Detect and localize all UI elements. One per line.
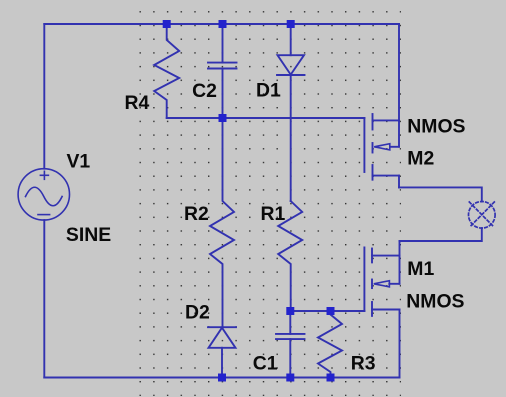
node junction C2 top [219,20,227,28]
wire M2 drain vertical [398,24,400,147]
svg-text:R1: R1 [261,203,286,225]
voltage source V1 [18,169,69,220]
node junction D2 bottom [218,374,226,382]
diode D2 [208,327,236,377]
wire M2 source to lamp [399,187,482,201]
resistor R2 [210,118,234,327]
svg-text:D1: D1 [256,79,281,101]
node junction R3 bottom [327,374,335,382]
wire mid rail to M2 gate [167,117,365,119]
wire M1 gate rail [290,310,364,312]
svg-text:V1: V1 [67,150,91,172]
lamp load [469,202,496,229]
node junction D1 top [287,20,295,28]
svg-text:M1: M1 [407,258,434,280]
capacitor C1 [276,311,305,378]
svg-text:SINE: SINE [66,224,111,246]
diode D1 [277,24,305,201]
capacitor C2 [208,24,237,118]
svg-text:R4: R4 [125,92,150,114]
node junction C2 bottom [219,114,227,122]
svg-text:M2: M2 [407,148,434,170]
wire left rail lower [43,220,45,377]
svg-text:C2: C2 [192,80,217,102]
resistor R1 [278,201,302,311]
svg-text:NMOS: NMOS [406,291,464,313]
wire lamp to M1 drain [400,228,482,241]
transistor M2 [364,114,399,187]
node junction R1-C1 [286,307,294,315]
node junction R3 top [327,307,335,315]
wire left rail upper [43,24,45,169]
svg-text:D2: D2 [185,301,210,323]
resistor R3 [318,311,342,378]
node junction R4 top [163,20,171,28]
wire top rail [44,23,399,25]
svg-text:NMOS: NMOS [407,115,465,137]
resistor R4 [154,24,179,118]
svg-text:R3: R3 [351,353,376,375]
wire bottom rail [44,377,399,379]
svg-text:C1: C1 [253,353,278,375]
wire M1 source vertical [399,310,401,378]
node junction C1 bottom [286,374,294,382]
svg-text:R2: R2 [184,203,209,225]
transistor M1 [364,241,399,316]
